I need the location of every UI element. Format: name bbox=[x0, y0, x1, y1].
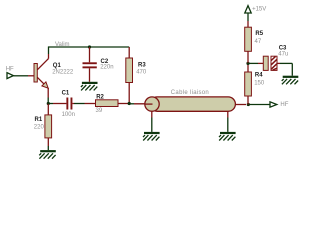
svg-text:HF: HF bbox=[6, 66, 14, 72]
svg-text:2N2222: 2N2222 bbox=[52, 70, 74, 76]
node cable/R4/output bbox=[247, 103, 250, 106]
wire R5 to +15V bbox=[247, 13, 249, 21]
svg-text:R1: R1 bbox=[35, 117, 43, 123]
port HF input bbox=[7, 73, 13, 79]
wire R1 to ground bbox=[47, 146, 49, 150]
svg-text:+15V: +15V bbox=[252, 7, 266, 13]
wire C1 to R2 bbox=[74, 103, 85, 105]
resistor R5 bbox=[245, 21, 252, 63]
node emitter/R1/C1 bbox=[47, 102, 50, 105]
wire collector up bbox=[48, 47, 50, 55]
wire cable right shield down bbox=[227, 111, 229, 117]
resistor R4 bbox=[245, 63, 252, 104]
svg-text:220: 220 bbox=[34, 125, 45, 131]
svg-text:39: 39 bbox=[96, 108, 103, 114]
svg-text:220n: 220n bbox=[100, 65, 113, 71]
svg-text:R2: R2 bbox=[96, 95, 104, 101]
svg-text:Q1: Q1 bbox=[53, 63, 62, 69]
wire node to cable bbox=[129, 103, 134, 105]
port HF output bbox=[270, 102, 277, 107]
svg-text:100n: 100n bbox=[62, 112, 75, 118]
resistor R2 bbox=[85, 100, 130, 107]
wire node to output port bbox=[248, 104, 269, 106]
ground under C2 bbox=[81, 82, 98, 91]
ground C3 bbox=[282, 76, 299, 85]
node top rail / C2 bbox=[88, 45, 91, 48]
svg-text:Valim: Valim bbox=[55, 42, 70, 48]
wire cable right lead bbox=[235, 104, 246, 106]
capacitor C2 bbox=[83, 47, 97, 82]
capacitor C3 (electrolytic) bbox=[258, 56, 280, 70]
wire C3 to ground bbox=[280, 62, 292, 64]
svg-text:Cable liaison: Cable liaison bbox=[171, 90, 209, 96]
svg-text:R5: R5 bbox=[255, 31, 263, 37]
wire cable left lead bbox=[134, 103, 152, 105]
wire top rail bbox=[48, 46, 129, 48]
node R2/R3/cable bbox=[128, 102, 131, 105]
ground cable left bbox=[143, 132, 160, 141]
wire emitter down bbox=[47, 98, 49, 104]
wire emitter rail bbox=[48, 103, 53, 105]
cable liaison body bbox=[145, 97, 236, 111]
svg-text:R3: R3 bbox=[138, 62, 146, 68]
wire node to C3 bbox=[248, 62, 258, 64]
wire base lead bbox=[28, 75, 34, 77]
node R4/R5/C3 bbox=[246, 62, 249, 65]
power +15V bbox=[245, 6, 251, 13]
svg-text:150: 150 bbox=[254, 81, 265, 87]
capacitor C1 bbox=[53, 98, 74, 110]
ground cable right bbox=[219, 132, 236, 141]
svg-text:R4: R4 bbox=[255, 72, 263, 78]
svg-text:C1: C1 bbox=[62, 91, 70, 97]
resistor R1 bbox=[45, 104, 52, 147]
ground under R1 bbox=[39, 150, 56, 159]
transistor Q1 bbox=[34, 54, 49, 98]
resistor R3 bbox=[126, 47, 133, 104]
svg-text:47u: 47u bbox=[278, 52, 288, 58]
svg-text:47: 47 bbox=[255, 39, 262, 45]
wire cable left shield down bbox=[151, 111, 153, 117]
svg-text:C3: C3 bbox=[279, 45, 287, 51]
svg-text:470: 470 bbox=[136, 69, 147, 75]
svg-text:HF: HF bbox=[280, 102, 288, 108]
wire input to base bbox=[13, 75, 28, 77]
